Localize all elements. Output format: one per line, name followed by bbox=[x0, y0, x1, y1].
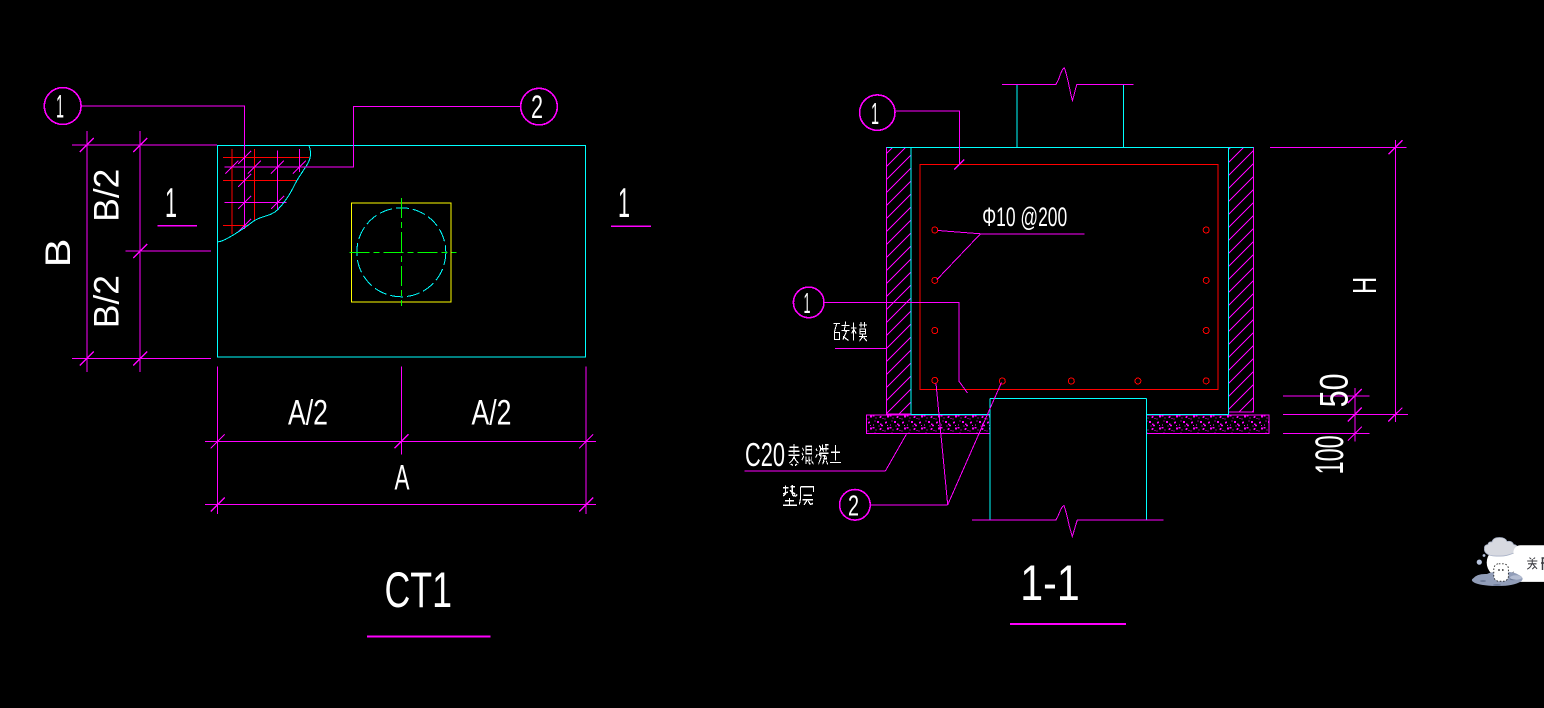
svg-text:1-1: 1-1 bbox=[1020, 555, 1079, 611]
svg-text:B/2: B/2 bbox=[88, 275, 127, 328]
section bubble 1 mid circle bbox=[793, 287, 824, 318]
rebar label underline bbox=[981, 233, 1085, 235]
rebar mesh red horizontal 2 bbox=[223, 179, 297, 181]
detail bubble 1 circle bbox=[44, 88, 81, 125]
dim ticks B bbox=[80, 138, 147, 366]
rebar tick marks bbox=[226, 151, 307, 232]
leader from bubble 1 bbox=[81, 106, 245, 229]
label zhuan-mo (brick form) char 1 bbox=[834, 322, 850, 341]
svg-text:2: 2 bbox=[531, 89, 543, 125]
section bubble 1 top circle bbox=[860, 95, 895, 130]
dim H ticks bbox=[1388, 140, 1402, 421]
bottom break line bbox=[972, 506, 1163, 537]
bedding layer left (C20 concrete) bbox=[867, 415, 991, 434]
pier circle (hidden, dashed) bbox=[357, 208, 446, 297]
bedding layer right (C20 concrete) bbox=[1147, 415, 1269, 434]
pedestal below left edge bbox=[989, 399, 991, 521]
pedestal below right edge bbox=[1146, 399, 1148, 521]
label tu char bbox=[830, 445, 841, 462]
section bubble 1 mid leader bbox=[824, 302, 968, 393]
rebar mesh red horizontal 3 bbox=[223, 224, 249, 226]
svg-text:H: H bbox=[1346, 277, 1383, 294]
section bubble 1 top leader bbox=[895, 111, 959, 164]
watermark partial second character bbox=[1541, 558, 1544, 570]
dim B/2 split line bbox=[125, 250, 211, 252]
watermark cloud bbox=[1484, 538, 1517, 557]
section cut mark 1 right underline bbox=[611, 225, 651, 227]
footing outline bbox=[911, 147, 1229, 414]
dim A extension left bbox=[217, 367, 219, 515]
svg-text:50: 50 bbox=[1313, 373, 1357, 407]
column pocket square bbox=[352, 203, 452, 302]
watermark yang character bbox=[1527, 558, 1537, 570]
rebar mesh magenta horizontal bbox=[224, 202, 286, 204]
rebar dots right column bbox=[1203, 227, 1209, 384]
svg-text:C20: C20 bbox=[745, 436, 785, 473]
watermark speech bubble bbox=[1513, 545, 1544, 582]
pedestal top edge bbox=[990, 398, 1146, 400]
title CT1 underline bbox=[367, 636, 490, 638]
centerline vertical bbox=[400, 198, 402, 306]
svg-text:A: A bbox=[395, 459, 410, 498]
top break line bbox=[1002, 68, 1134, 101]
dim H extension bottom bbox=[1283, 414, 1408, 416]
section cut mark 1 left underline bbox=[158, 225, 197, 227]
section bubble 2 leader bbox=[870, 504, 948, 506]
label C20 underline bbox=[744, 470, 885, 472]
rebar mesh magenta vertical 2 bbox=[299, 149, 301, 172]
watermark critter eyes bbox=[1498, 569, 1500, 571]
rebar label leader to dot 2 bbox=[937, 234, 981, 280]
rebar mesh magenta vertical 1 bbox=[277, 150, 279, 209]
label ceng char bbox=[799, 487, 813, 505]
rebar label leader to dot 1 bbox=[938, 231, 981, 234]
section bubble 1 top leader tick bbox=[954, 160, 964, 170]
watermark puddle light patch bbox=[1510, 575, 1522, 579]
label dian char bbox=[783, 485, 797, 506]
dim A extension right bbox=[585, 367, 587, 515]
svg-text:1: 1 bbox=[618, 179, 630, 226]
dim ticks A bbox=[211, 434, 594, 511]
centerline horizontal bbox=[350, 251, 457, 253]
label zhuan-mo underline bbox=[835, 347, 887, 349]
brick form wall left bbox=[887, 147, 912, 414]
watermark moon circle bbox=[1487, 548, 1517, 578]
dim line B bbox=[86, 131, 88, 372]
footing slab outline CT1 bbox=[218, 146, 586, 358]
label su char bbox=[788, 444, 799, 465]
detail bubble 2 circle bbox=[521, 88, 558, 125]
rebar dots bottom row bbox=[999, 378, 1141, 384]
section bubble 2 leader diag 2 bbox=[948, 383, 1002, 505]
svg-text:A/2: A/2 bbox=[472, 394, 512, 433]
rebar cage outline bbox=[920, 165, 1218, 390]
dim 50-100 ticks bbox=[1348, 389, 1362, 441]
svg-text:1: 1 bbox=[56, 89, 64, 125]
rebar mesh red horizontal 1 bbox=[223, 157, 309, 159]
svg-text:B/2: B/2 bbox=[88, 169, 127, 222]
watermark critter body bbox=[1494, 564, 1509, 581]
svg-text:1: 1 bbox=[871, 96, 879, 131]
title 1-1 underline bbox=[1010, 623, 1126, 625]
dim line H bbox=[1394, 140, 1396, 422]
watermark puddle shade bbox=[1480, 578, 1517, 586]
rebar dots left column bbox=[932, 227, 938, 383]
dim line B/2 bbox=[139, 131, 141, 372]
dim line A bbox=[205, 504, 596, 506]
rebar mesh red vertical 1 bbox=[231, 149, 233, 234]
dim H extension top bbox=[1270, 146, 1407, 148]
svg-text:CT1: CT1 bbox=[384, 562, 452, 618]
dim B extension top bbox=[72, 144, 217, 146]
label ning char bbox=[816, 445, 829, 465]
svg-text:2: 2 bbox=[848, 491, 859, 523]
svg-text:B: B bbox=[39, 239, 78, 268]
label hun char bbox=[802, 446, 814, 464]
dim line A/2 bbox=[205, 440, 596, 442]
svg-text:100: 100 bbox=[1308, 435, 1352, 474]
svg-text:Φ10 @200: Φ10 @200 bbox=[982, 202, 1067, 232]
watermark sparkle dots bbox=[1477, 560, 1482, 565]
watermark puddle bbox=[1472, 572, 1523, 586]
leader from bubble 2 bbox=[224, 107, 520, 168]
label C20 leader diagonal bbox=[885, 434, 906, 471]
dim 100 extension bottom bbox=[1283, 433, 1370, 435]
footing top edge over walls bbox=[887, 146, 1254, 148]
label zhuan-mo (brick form) char 2 bbox=[851, 322, 867, 341]
column wall above left bbox=[1016, 84, 1018, 147]
svg-text:1: 1 bbox=[165, 179, 177, 226]
dim 50 extension top bbox=[1283, 395, 1370, 397]
dim B extension bottom bbox=[72, 358, 211, 360]
section bubble 2 leader diag 1 bbox=[936, 384, 948, 505]
svg-text:1: 1 bbox=[804, 288, 811, 320]
column wall above right bbox=[1123, 84, 1125, 147]
dim line 50-100 bbox=[1354, 388, 1356, 442]
svg-text:A/2: A/2 bbox=[288, 394, 328, 433]
dim A extension mid bbox=[401, 367, 403, 455]
rebar mesh red vertical 2 bbox=[253, 149, 255, 221]
mesh break spline bbox=[217, 146, 310, 243]
brick form wall right bbox=[1229, 147, 1254, 412]
section bubble 2 circle bbox=[840, 490, 871, 521]
